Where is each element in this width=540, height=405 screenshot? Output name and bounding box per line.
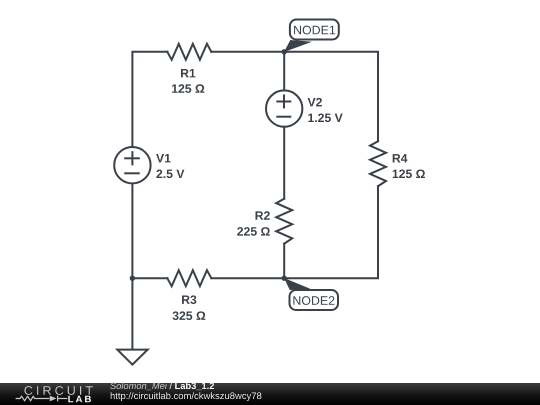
wire top-left corner (R1 left lead to V1 plus terminal) (132, 52, 167, 147)
wire middle-upper (NODE1 junction to V2 plus terminal) (283, 52, 285, 91)
junction dot bottom-left (130, 276, 135, 281)
value V2 1.25 V (308, 114, 342, 123)
NODE2 label text (293, 296, 334, 305)
resistor R4 zigzag (370, 141, 386, 186)
ground symbol (117, 350, 147, 365)
value R1 125 ohm (172, 84, 204, 93)
wire bottom-left (junction to R3 left lead) (132, 277, 167, 279)
CircuitLab logo squiggle (resistor + diode) (16, 396, 68, 402)
wire left-ground (bottom-left junction down to ground) (131, 278, 133, 348)
V2 minus sign (277, 116, 290, 118)
CircuitLab logo CIRCUIT text (24, 386, 92, 395)
value R2 225 ohm (237, 227, 270, 236)
wire right-lower corner (R4 bottom lead to NODE2 junction) (284, 186, 378, 278)
label R3 (182, 295, 196, 304)
footer url line (111, 392, 262, 401)
value R4 125 ohm (393, 170, 425, 179)
node junction dot NODE2 (282, 276, 287, 281)
NODE2 flag box (290, 290, 339, 310)
wire top-middle (R1 right lead to NODE1 junction) (211, 51, 284, 53)
label V1 (156, 154, 171, 162)
V2 plus sign (277, 95, 290, 107)
footer black bar (0, 383, 540, 405)
NODE2 flag pointer wedge (284, 278, 311, 290)
voltage source V1 circle (114, 147, 150, 183)
resistor R3 zigzag (167, 270, 211, 286)
wire middle-lower (R2 bottom lead to NODE2 junction) (283, 244, 285, 279)
label V2 (308, 98, 322, 107)
voltage source V2 circle (266, 90, 302, 126)
resistor R2 zigzag (276, 199, 292, 244)
V1 plus sign (125, 152, 139, 164)
V1 minus sign (125, 172, 139, 174)
value V1 2.5 V (156, 170, 184, 179)
label R1 (181, 69, 196, 77)
wire top-right corner (NODE1 junction to R4 top lead) (284, 52, 378, 141)
footer title line: Solomon_Mei / Lab3_1.2 (110, 382, 214, 390)
node junction dot NODE1 (282, 49, 287, 54)
NODE1 flag pointer wedge (284, 40, 312, 52)
label R4 (393, 154, 408, 162)
NODE1 label text (294, 26, 335, 35)
wire middle-mid (V2 minus terminal to R2 top lead) (283, 127, 285, 199)
NODE1 flag box (290, 20, 339, 40)
value R3 325 ohm (173, 311, 206, 320)
label R2 (256, 211, 270, 220)
wire bottom-middle (R3 right lead to NODE2 junction) (211, 277, 284, 279)
resistor R1 zigzag (167, 44, 211, 60)
wire left-lower (V1 minus terminal to bottom-left junction) (131, 184, 133, 279)
CircuitLab logo LAB text (68, 396, 91, 403)
